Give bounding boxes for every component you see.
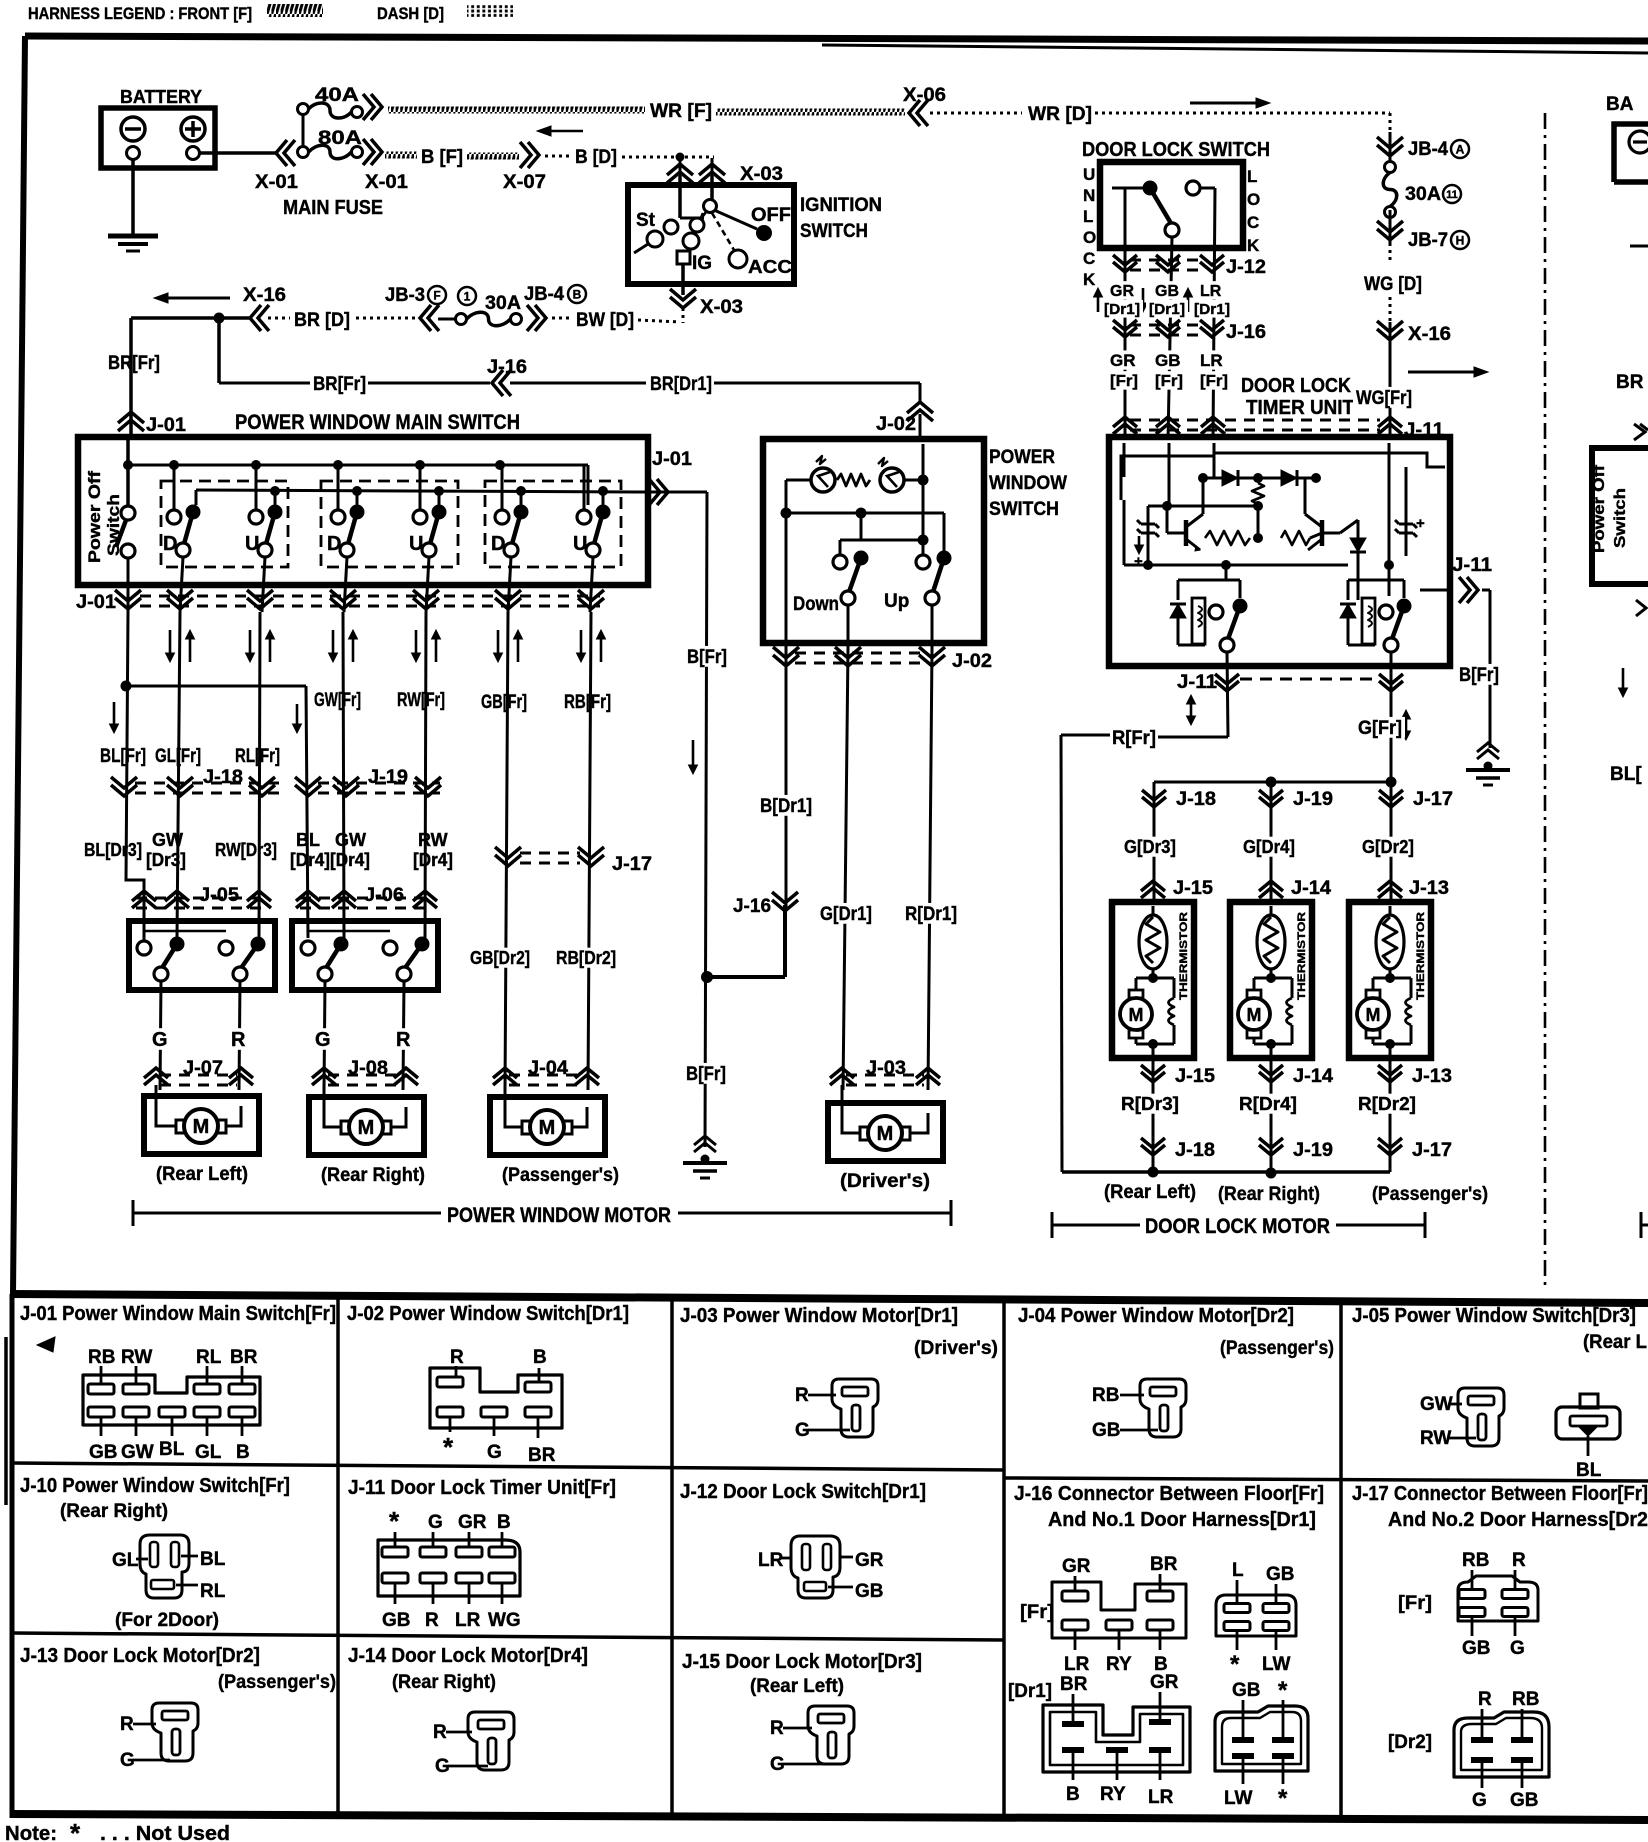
- svg-text:J-04: J-04: [528, 1058, 568, 1079]
- svg-text:GB: GB: [1092, 1420, 1121, 1441]
- svg-text:G[Dr4]: G[Dr4]: [1243, 837, 1295, 857]
- svg-text:RB: RB: [1462, 1550, 1489, 1571]
- svg-text:RB: RB: [1092, 1385, 1119, 1406]
- svg-text:And No.1 Door Harness[Dr1]: And No.1 Door Harness[Dr1]: [1048, 1509, 1316, 1531]
- svg-text:C: C: [1247, 213, 1259, 232]
- svg-text:GB: GB: [89, 1442, 118, 1463]
- svg-text:JB-4: JB-4: [1408, 139, 1448, 160]
- svg-text:BR: BR: [1060, 1674, 1088, 1695]
- svg-text:(Passenger's): (Passenger's): [1372, 1184, 1488, 1205]
- svg-text:GB: GB: [1155, 283, 1179, 300]
- svg-text:LR: LR: [455, 1610, 481, 1631]
- svg-text:J-10 Power Window Switch[Fr]: J-10 Power Window Switch[Fr]: [20, 1475, 290, 1497]
- svg-text:30A: 30A: [1405, 184, 1441, 205]
- svg-text:BR[Fr]: BR[Fr]: [108, 353, 160, 374]
- svg-text:R: R: [450, 1347, 464, 1368]
- svg-text:THERMISTOR: THERMISTOR: [1296, 912, 1308, 1000]
- svg-text:J-06: J-06: [364, 885, 404, 906]
- svg-text:JB-4: JB-4: [524, 284, 564, 305]
- svg-text:J-18: J-18: [1176, 789, 1216, 810]
- svg-text:GB: GB: [1266, 1564, 1295, 1585]
- svg-text:J-07: J-07: [183, 1058, 223, 1079]
- svg-text:M: M: [539, 1117, 556, 1139]
- svg-text:GL: GL: [195, 1442, 222, 1463]
- svg-text:A: A: [1456, 142, 1465, 156]
- svg-text:IGNITION: IGNITION: [800, 195, 882, 216]
- svg-text:GR: GR: [1110, 351, 1136, 370]
- svg-text:*: *: [1230, 1651, 1240, 1678]
- svg-text:JB-7: JB-7: [1408, 230, 1448, 251]
- svg-text:ACC: ACC: [748, 257, 792, 277]
- svg-text:DOOR LOCK MOTOR: DOOR LOCK MOTOR: [1145, 1215, 1330, 1238]
- svg-text:(Passenger's): (Passenger's): [1220, 1338, 1334, 1359]
- svg-text:B[Fr]: B[Fr]: [1459, 665, 1499, 686]
- svg-text:B[Fr]: B[Fr]: [687, 647, 727, 668]
- svg-text:[Fr]: [Fr]: [1200, 373, 1228, 390]
- svg-text:G[Dr2]: G[Dr2]: [1362, 837, 1414, 857]
- svg-text:B: B: [573, 287, 582, 301]
- svg-text:J-12 Door Lock Switch[Dr1]: J-12 Door Lock Switch[Dr1]: [680, 1481, 926, 1503]
- svg-text:K: K: [1083, 270, 1096, 289]
- svg-text:POWER WINDOW MAIN SWITCH: POWER WINDOW MAIN SWITCH: [235, 411, 520, 434]
- svg-text:GR: GR: [855, 1550, 884, 1571]
- svg-text:J-14: J-14: [1293, 1066, 1333, 1087]
- svg-text:J-16: J-16: [487, 357, 527, 378]
- svg-text:J-13: J-13: [1412, 1066, 1452, 1087]
- svg-text:LW: LW: [1262, 1654, 1291, 1675]
- svg-text:*: *: [443, 1432, 454, 1462]
- svg-text:RL[Fr]: RL[Fr]: [235, 746, 280, 767]
- svg-text:J-12: J-12: [1226, 257, 1266, 278]
- svg-text:R: R: [1512, 1550, 1526, 1571]
- svg-text:GW: GW: [335, 830, 366, 850]
- svg-text:J-15: J-15: [1173, 878, 1213, 899]
- svg-text:(Driver's): (Driver's): [914, 1338, 998, 1359]
- svg-text:RW[Dr3]: RW[Dr3]: [215, 840, 277, 860]
- svg-text:POWER WINDOW MOTOR: POWER WINDOW MOTOR: [447, 1204, 671, 1227]
- svg-text:G[Fr]: G[Fr]: [1358, 718, 1402, 739]
- svg-text:BR[Fr]: BR[Fr]: [313, 374, 366, 395]
- svg-text:J-14 Door Lock Motor[Dr4]: J-14 Door Lock Motor[Dr4]: [348, 1645, 588, 1667]
- svg-text:B [D]: B [D]: [575, 147, 617, 168]
- svg-text:J-17: J-17: [1413, 789, 1453, 810]
- svg-text:BR[Dr1]: BR[Dr1]: [650, 374, 712, 395]
- svg-text:RW[Fr]: RW[Fr]: [397, 690, 445, 711]
- svg-text:BR: BR: [230, 1347, 258, 1368]
- svg-text:R: R: [1478, 1689, 1492, 1710]
- svg-text:LR: LR: [758, 1550, 784, 1571]
- svg-text:RY: RY: [1100, 1784, 1126, 1805]
- svg-text:RL: RL: [196, 1347, 222, 1368]
- svg-text:J-13: J-13: [1409, 878, 1449, 899]
- svg-text:J-16: J-16: [733, 896, 771, 917]
- svg-text:Down: Down: [793, 594, 839, 615]
- svg-text:R[Fr]: R[Fr]: [1112, 728, 1156, 749]
- svg-text:O: O: [1083, 228, 1096, 247]
- svg-text:DASH [D]: DASH [D]: [377, 4, 444, 23]
- svg-text:X-03: X-03: [740, 164, 783, 185]
- svg-text:J-17 Connector Between Floor[F: J-17 Connector Between Floor[Fr]: [1352, 1483, 1648, 1505]
- svg-text:(Rear Left): (Rear Left): [1104, 1182, 1196, 1203]
- svg-text:[Dr1]: [Dr1]: [1008, 1681, 1052, 1702]
- svg-text:1: 1: [464, 289, 471, 303]
- svg-text:DOOR LOCK: DOOR LOCK: [1241, 375, 1351, 397]
- svg-text:L: L: [1247, 167, 1257, 186]
- svg-text:[Dr1]: [Dr1]: [1149, 301, 1185, 318]
- svg-text:J-15 Door Lock Motor[Dr3]: J-15 Door Lock Motor[Dr3]: [682, 1651, 922, 1673]
- svg-text:U: U: [245, 533, 259, 555]
- svg-text:M: M: [1247, 1005, 1262, 1025]
- svg-text:R: R: [396, 1029, 411, 1051]
- svg-text:Switch: Switch: [1612, 488, 1629, 548]
- svg-text:BA: BA: [1606, 94, 1634, 115]
- svg-text:40A: 40A: [315, 85, 359, 106]
- svg-text:RB: RB: [88, 1347, 115, 1368]
- svg-text:LR: LR: [1148, 1787, 1174, 1808]
- svg-text:R: R: [795, 1385, 809, 1406]
- svg-text:GB: GB: [1155, 351, 1181, 370]
- svg-text:N: N: [1083, 186, 1095, 205]
- svg-text:J-11: J-11: [1452, 555, 1492, 576]
- svg-text:L: L: [1232, 1560, 1244, 1581]
- svg-text:DOOR LOCK SWITCH: DOOR LOCK SWITCH: [1082, 139, 1270, 161]
- svg-text:J-08: J-08: [348, 1058, 388, 1079]
- svg-text:D: D: [327, 533, 341, 555]
- svg-text:G: G: [1510, 1638, 1525, 1659]
- svg-text:80A: 80A: [318, 128, 362, 149]
- svg-text:LR: LR: [1064, 1654, 1090, 1675]
- svg-text:TIMER UNIT: TIMER UNIT: [1246, 397, 1354, 419]
- svg-text:M: M: [358, 1117, 375, 1139]
- svg-text:[Fr]: [Fr]: [1398, 1593, 1432, 1614]
- svg-text:U: U: [573, 533, 587, 555]
- svg-text:OFF: OFF: [751, 205, 791, 226]
- svg-text:GW: GW: [121, 1442, 154, 1463]
- svg-text:J-05 Power Window Switch[Dr3]: J-05 Power Window Switch[Dr3]: [1352, 1305, 1636, 1327]
- svg-text:B[Fr]: B[Fr]: [686, 1064, 726, 1085]
- svg-text:GW[Fr]: GW[Fr]: [314, 690, 361, 711]
- svg-text:J-01: J-01: [76, 592, 116, 613]
- svg-text:[Fr]: [Fr]: [1020, 1602, 1054, 1623]
- svg-text:J-02: J-02: [876, 414, 916, 435]
- svg-text:J-19: J-19: [368, 767, 408, 788]
- svg-text:M: M: [1366, 1005, 1381, 1025]
- svg-text:(Rear Right): (Rear Right): [321, 1165, 425, 1186]
- svg-text:R: R: [770, 1718, 784, 1739]
- svg-text:G: G: [435, 1756, 450, 1777]
- svg-text:THERMISTOR: THERMISTOR: [1415, 912, 1427, 1000]
- svg-text:D: D: [163, 533, 177, 555]
- svg-text:GR: GR: [1110, 283, 1134, 300]
- svg-text:GB: GB: [1232, 1680, 1261, 1701]
- svg-text:BL: BL: [296, 830, 320, 850]
- svg-text:[Fr]: [Fr]: [1110, 373, 1138, 390]
- svg-text:X-06: X-06: [903, 85, 946, 106]
- svg-text:X-07: X-07: [503, 172, 546, 193]
- svg-text:WR [D]: WR [D]: [1028, 104, 1092, 125]
- svg-text:BW [D]: BW [D]: [576, 310, 634, 331]
- svg-text:SWITCH: SWITCH: [989, 499, 1059, 520]
- svg-text:B[Dr1]: B[Dr1]: [760, 796, 812, 817]
- svg-text:J-03: J-03: [866, 1058, 906, 1079]
- svg-text:SWITCH: SWITCH: [800, 221, 868, 242]
- svg-text:RW: RW: [121, 1347, 152, 1368]
- svg-text:J-13 Door Lock Motor[Dr2]: J-13 Door Lock Motor[Dr2]: [20, 1645, 260, 1667]
- svg-text:BR [D]: BR [D]: [294, 310, 350, 331]
- svg-text:(Rear Right): (Rear Right): [392, 1672, 496, 1693]
- svg-text:(Rear L: (Rear L: [1583, 1332, 1647, 1353]
- svg-text:J-01: J-01: [652, 449, 692, 470]
- svg-text:BL: BL: [1576, 1460, 1602, 1481]
- svg-text:IG: IG: [692, 253, 712, 274]
- svg-text:Up: Up: [884, 591, 909, 612]
- svg-text:WR [F]: WR [F]: [650, 101, 712, 122]
- svg-text:[Dr4]: [Dr4]: [413, 850, 453, 870]
- svg-text:RW: RW: [1420, 1428, 1451, 1449]
- svg-text:St: St: [636, 210, 656, 231]
- svg-text:G: G: [1472, 1790, 1487, 1811]
- svg-text:(Rear Left): (Rear Left): [750, 1676, 844, 1697]
- svg-text:BL[: BL[: [1610, 764, 1642, 785]
- svg-text:BL[Fr]: BL[Fr]: [100, 746, 146, 767]
- svg-text:X-03: X-03: [700, 297, 743, 318]
- svg-text:RW: RW: [418, 830, 448, 850]
- svg-text:*: *: [389, 1506, 400, 1536]
- svg-text:BL: BL: [200, 1549, 226, 1570]
- svg-text:M: M: [193, 1116, 210, 1138]
- svg-text:[Dr2]: [Dr2]: [1388, 1732, 1432, 1753]
- svg-text:B: B: [236, 1442, 250, 1463]
- svg-text:RB[Fr]: RB[Fr]: [564, 692, 611, 713]
- svg-text:LR: LR: [1200, 283, 1222, 300]
- svg-text:(For 2Door): (For 2Door): [115, 1610, 219, 1631]
- svg-text:F: F: [433, 288, 440, 302]
- svg-text:*: *: [1278, 1785, 1288, 1812]
- svg-text:G[Dr3]: G[Dr3]: [1124, 837, 1176, 857]
- svg-text:X-16: X-16: [1408, 324, 1451, 345]
- svg-text:(Driver's): (Driver's): [840, 1171, 930, 1192]
- svg-text:GB: GB: [382, 1610, 411, 1631]
- svg-text:X-01: X-01: [365, 172, 408, 193]
- svg-text:J-11 Door Lock Timer Unit[Fr]: J-11 Door Lock Timer Unit[Fr]: [348, 1477, 616, 1499]
- svg-text:THERMISTOR: THERMISTOR: [1178, 912, 1190, 1000]
- svg-text:J-04 Power Window Motor[Dr2]: J-04 Power Window Motor[Dr2]: [1018, 1305, 1294, 1327]
- svg-text:J-14: J-14: [1291, 878, 1331, 899]
- svg-text:U: U: [409, 533, 423, 555]
- svg-text:GR: GR: [458, 1512, 487, 1533]
- svg-text:RL: RL: [200, 1581, 226, 1602]
- svg-text:GL: GL: [112, 1550, 139, 1571]
- svg-text:B: B: [497, 1512, 511, 1533]
- svg-text:GW: GW: [1420, 1394, 1453, 1415]
- svg-text:GL[Fr]: GL[Fr]: [155, 746, 201, 767]
- svg-text:J-19: J-19: [1293, 789, 1333, 810]
- svg-text:WINDOW: WINDOW: [989, 473, 1067, 494]
- svg-text:+: +: [1416, 515, 1425, 532]
- svg-text:J-02: J-02: [952, 651, 992, 672]
- svg-text:R: R: [425, 1610, 439, 1631]
- svg-text:J-01 Power Window Main Switch[: J-01 Power Window Main Switch[Fr]: [20, 1303, 336, 1325]
- svg-text:MAIN FUSE: MAIN FUSE: [283, 197, 383, 219]
- svg-text:11: 11: [1446, 189, 1458, 201]
- svg-text:(Passenger's): (Passenger's): [502, 1165, 619, 1186]
- svg-text:WG[Fr]: WG[Fr]: [1356, 388, 1412, 409]
- svg-text:LW: LW: [1224, 1788, 1253, 1809]
- svg-text:G: G: [487, 1442, 502, 1463]
- svg-text:J-18: J-18: [1175, 1140, 1215, 1161]
- svg-text:R: R: [231, 1029, 246, 1051]
- svg-text:BL: BL: [159, 1439, 185, 1460]
- svg-text:HARNESS LEGEND : FRONT [F]: HARNESS LEGEND : FRONT [F]: [28, 4, 252, 23]
- svg-text:30A: 30A: [485, 293, 521, 314]
- svg-text:. . . Not Used: . . . Not Used: [100, 1823, 230, 1842]
- svg-text:GB: GB: [1510, 1790, 1539, 1811]
- svg-text:B: B: [1066, 1784, 1080, 1805]
- svg-text:GB: GB: [855, 1581, 884, 1602]
- svg-text:B [F]: B [F]: [421, 147, 463, 168]
- svg-text:[Fr]: [Fr]: [1155, 373, 1183, 390]
- svg-text:X-16: X-16: [243, 285, 286, 306]
- svg-text:J-01: J-01: [146, 415, 186, 436]
- svg-text:R[Dr4]: R[Dr4]: [1239, 1094, 1297, 1114]
- svg-text:U: U: [1083, 165, 1095, 184]
- svg-text:And No.2 Door Harness[Dr2: And No.2 Door Harness[Dr2: [1388, 1509, 1648, 1531]
- svg-text:*: *: [1278, 1677, 1288, 1704]
- svg-text:RB[Dr2]: RB[Dr2]: [556, 948, 616, 968]
- svg-text:H: H: [1456, 233, 1465, 247]
- svg-text:(Rear Left): (Rear Left): [156, 1164, 248, 1185]
- svg-text:BR: BR: [1616, 372, 1644, 393]
- svg-text:*: *: [70, 1818, 81, 1842]
- svg-text:Note:: Note:: [5, 1823, 57, 1842]
- svg-text:J-18: J-18: [203, 767, 243, 788]
- svg-text:+: +: [1134, 553, 1143, 570]
- svg-text:GR: GR: [1150, 1672, 1179, 1693]
- svg-text:G: G: [770, 1754, 785, 1775]
- svg-text:G: G: [315, 1029, 331, 1051]
- svg-text:J-19: J-19: [1293, 1140, 1333, 1161]
- svg-text:[Dr3]: [Dr3]: [146, 850, 186, 870]
- svg-text:C: C: [1083, 249, 1095, 268]
- svg-text:L: L: [1083, 207, 1093, 226]
- svg-text:J-11: J-11: [1177, 672, 1217, 693]
- svg-text:GB[Fr]: GB[Fr]: [481, 692, 527, 713]
- svg-text:O: O: [1247, 190, 1260, 209]
- svg-text:[Dr1]: [Dr1]: [1104, 301, 1140, 318]
- svg-text:M: M: [877, 1123, 894, 1145]
- svg-text:R[Dr1]: R[Dr1]: [905, 904, 957, 925]
- svg-text:K: K: [1247, 236, 1260, 255]
- svg-text:RY: RY: [1106, 1654, 1132, 1675]
- svg-text:R: R: [120, 1714, 134, 1735]
- svg-text:M: M: [1129, 1005, 1144, 1025]
- svg-text:G: G: [428, 1512, 443, 1533]
- svg-text:D: D: [491, 533, 505, 555]
- svg-text:BR: BR: [528, 1445, 556, 1466]
- svg-text:GR: GR: [1062, 1556, 1091, 1577]
- svg-text:BR: BR: [1150, 1554, 1178, 1575]
- svg-text:J-17: J-17: [1412, 1140, 1452, 1161]
- svg-text:WG [D]: WG [D]: [1364, 274, 1422, 295]
- svg-text:B: B: [533, 1347, 547, 1368]
- svg-text:GB[Dr2]: GB[Dr2]: [470, 948, 530, 968]
- svg-text:POWER: POWER: [989, 447, 1055, 468]
- svg-text:Power Off: Power Off: [85, 471, 104, 563]
- svg-text:[Dr4]: [Dr4]: [290, 850, 330, 870]
- svg-text:BL[Dr3]: BL[Dr3]: [84, 840, 142, 860]
- svg-text:[Dr1]: [Dr1]: [1194, 301, 1230, 318]
- svg-text:Switch: Switch: [104, 494, 123, 556]
- svg-text:G: G: [120, 1750, 135, 1771]
- svg-text:J-15: J-15: [1175, 1066, 1215, 1087]
- svg-text:JB-3: JB-3: [385, 285, 425, 306]
- svg-text:[Dr4]: [Dr4]: [330, 850, 370, 870]
- svg-text:(Rear Right): (Rear Right): [1218, 1184, 1320, 1205]
- svg-text:WG: WG: [488, 1610, 521, 1631]
- svg-text:(Rear Right): (Rear Right): [60, 1501, 168, 1522]
- svg-text:GW: GW: [152, 830, 183, 850]
- svg-text:G: G: [795, 1420, 810, 1441]
- svg-text:RB: RB: [1512, 1689, 1539, 1710]
- svg-text:(Passenger's): (Passenger's): [218, 1672, 336, 1693]
- svg-text:LR: LR: [1200, 351, 1223, 370]
- svg-text:J-03 Power Window Motor[Dr1]: J-03 Power Window Motor[Dr1]: [680, 1305, 958, 1327]
- svg-text:R[Dr2]: R[Dr2]: [1358, 1094, 1416, 1114]
- svg-text:J-16: J-16: [1226, 322, 1266, 343]
- svg-text:GB: GB: [1462, 1638, 1491, 1659]
- svg-text:J-02 Power Window Switch[Dr1]: J-02 Power Window Switch[Dr1]: [347, 1303, 629, 1325]
- svg-text:J-16 Connector Between Floor[F: J-16 Connector Between Floor[Fr]: [1014, 1483, 1324, 1505]
- svg-text:J-17: J-17: [612, 854, 652, 875]
- svg-text:G: G: [152, 1029, 168, 1051]
- svg-text:BATTERY: BATTERY: [120, 87, 202, 107]
- svg-text:Power Off: Power Off: [1591, 464, 1608, 553]
- svg-text:R: R: [433, 1722, 447, 1743]
- svg-text:R[Dr3]: R[Dr3]: [1121, 1094, 1179, 1114]
- svg-text:X-01: X-01: [255, 172, 298, 193]
- svg-text:G[Dr1]: G[Dr1]: [820, 904, 872, 925]
- svg-text:J-05: J-05: [199, 885, 239, 906]
